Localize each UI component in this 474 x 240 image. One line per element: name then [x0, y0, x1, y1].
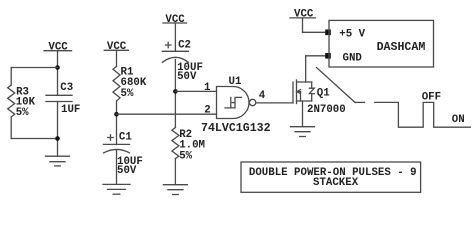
- svg-text:GND: GND: [343, 52, 363, 64]
- VCC symbol top right: [290, 8, 316, 20]
- svg-text:C3: C3: [60, 82, 73, 94]
- pin square +5V: [325, 30, 331, 36]
- svg-text:VCC: VCC: [294, 8, 314, 20]
- caption box: [241, 162, 421, 192]
- ground (left): [46, 156, 70, 166]
- svg-text:U1: U1: [229, 76, 242, 88]
- waveform: [375, 102, 471, 127]
- drain tick: [297, 81, 312, 83]
- wire top-left horizontal: [11, 67, 57, 69]
- DASHCAM box: [329, 20, 434, 67]
- svg-text:1UF: 1UF: [61, 104, 80, 116]
- capacitor C1: [104, 132, 143, 177]
- svg-text:OFF: OFF: [422, 92, 441, 104]
- resistor R2: [172, 128, 205, 163]
- wire C1 bottom down: [116, 151, 118, 185]
- wire pin 2: [117, 113, 217, 115]
- svg-text:5%: 5%: [121, 88, 134, 100]
- capacitor C3: [46, 82, 80, 116]
- wire C2 bottom down to R2: [174, 60, 176, 128]
- capacitor C2: [162, 40, 203, 83]
- svg-text:2N7000: 2N7000: [307, 104, 346, 116]
- VCC symbol (C2 column): [163, 14, 187, 26]
- transistor Q1 2N7000: [293, 80, 346, 116]
- svg-text:1: 1: [204, 82, 210, 94]
- svg-text:74LVC1G132: 74LVC1G132: [201, 122, 271, 135]
- switch lever: [317, 68, 356, 103]
- source tick: [297, 100, 312, 102]
- node junction dot bottom-left: [55, 136, 60, 141]
- resistor R3: [8, 85, 36, 119]
- node B junction dot: [114, 112, 119, 117]
- wire bottom-left horizontal: [11, 138, 57, 140]
- svg-text:Q1: Q1: [317, 88, 330, 100]
- channel bar: [296, 80, 298, 104]
- svg-text:4: 4: [259, 90, 266, 102]
- VCC symbol (R1 column): [104, 41, 128, 53]
- svg-text:C2: C2: [178, 40, 191, 52]
- ground (R2): [163, 185, 187, 195]
- wire VCC3 down to C2: [174, 23, 176, 51]
- wire VCC4 to +5V pin: [302, 18, 304, 32]
- svg-text:+5 V: +5 V: [339, 28, 365, 40]
- op-amp U1 gate 74LVC1G132: [201, 76, 271, 135]
- bulk arrow: [297, 90, 301, 94]
- gate bar: [292, 82, 294, 103]
- wire R1 bottom to C1: [116, 101, 118, 144]
- wire left vertical upper: [10, 68, 12, 86]
- ground (Q1): [291, 127, 315, 137]
- svg-text:2: 2: [204, 105, 210, 117]
- wire VCC2 down to R1: [116, 50, 118, 66]
- VCC symbol left (R3/C3 column): [44, 42, 72, 54]
- wire VCC1 down to C3 top: [57, 51, 59, 96]
- ground (C1): [103, 184, 130, 194]
- wire left vertical lower: [10, 117, 12, 139]
- pin square GND: [325, 53, 331, 59]
- body zener diode: [311, 82, 313, 88]
- svg-text:ON: ON: [452, 114, 465, 126]
- svg-text:50V: 50V: [117, 165, 137, 177]
- svg-text:5%: 5%: [16, 107, 29, 119]
- svg-text:VCC: VCC: [48, 42, 68, 54]
- svg-text:5%: 5%: [179, 151, 192, 163]
- wire pin 1: [175, 90, 216, 92]
- svg-text:DASHCAM: DASHCAM: [377, 41, 426, 54]
- node C junction dot (pin1 net): [173, 89, 178, 94]
- svg-text:C1: C1: [119, 132, 132, 144]
- svg-text:50V: 50V: [177, 71, 197, 83]
- wire R2 bottom down: [174, 159, 176, 185]
- schmitt trigger mark: [225, 97, 241, 108]
- node A junction dot top-left: [55, 65, 60, 70]
- wire C3 bottom down: [57, 102, 59, 157]
- wire Q1 drain up: [305, 56, 307, 82]
- resistor R1: [113, 66, 147, 101]
- wire pin 4 to gate of Q1: [256, 102, 293, 104]
- svg-text:STACKEX: STACKEX: [313, 177, 359, 189]
- wire Q1 source to ground: [302, 101, 304, 127]
